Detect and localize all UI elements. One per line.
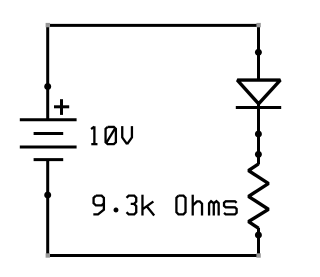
battery B1 plate 4 (short, negative) [34, 158, 64, 161]
wire right middle (diode cathode to resistor top) [257, 101, 260, 165]
junction dot diode anode [255, 49, 262, 56]
wire top [48, 24, 259, 27]
corner marker top-right [256, 23, 260, 27]
corner marker bottom-left [46, 253, 50, 257]
junction dot resistor top [255, 151, 262, 158]
junction dot resistor bottom [255, 232, 262, 239]
label 9.3k Ohms (resistor value) [93, 195, 236, 216]
wire bottom [48, 254, 259, 257]
battery plus sign [54, 99, 69, 115]
corner marker top-left [46, 23, 50, 27]
label 10V (battery value) [91, 126, 132, 144]
resistor R1 zigzag [249, 164, 269, 228]
wire left upper (top corner to battery top plate) [46, 25, 49, 120]
battery B1 plate 1 (long, positive) [20, 118, 77, 121]
diode D1 triangle [237, 80, 280, 104]
wire left lower (battery bottom plate to bottom corner) [46, 160, 49, 256]
junction dot diode cathode [255, 131, 262, 138]
diode D1 cathode bar [236, 106, 281, 109]
junction dot battery top [44, 83, 51, 90]
junction dot battery bottom [44, 192, 51, 199]
wire right upper (top corner to diode anode) [257, 25, 260, 80]
wire right lower (resistor bottom to bottom corner) [257, 228, 260, 256]
battery B1 plate 2 (short) [34, 132, 64, 135]
battery B1 plate 3 (long) [20, 146, 77, 149]
corner marker bottom-right [256, 253, 260, 257]
